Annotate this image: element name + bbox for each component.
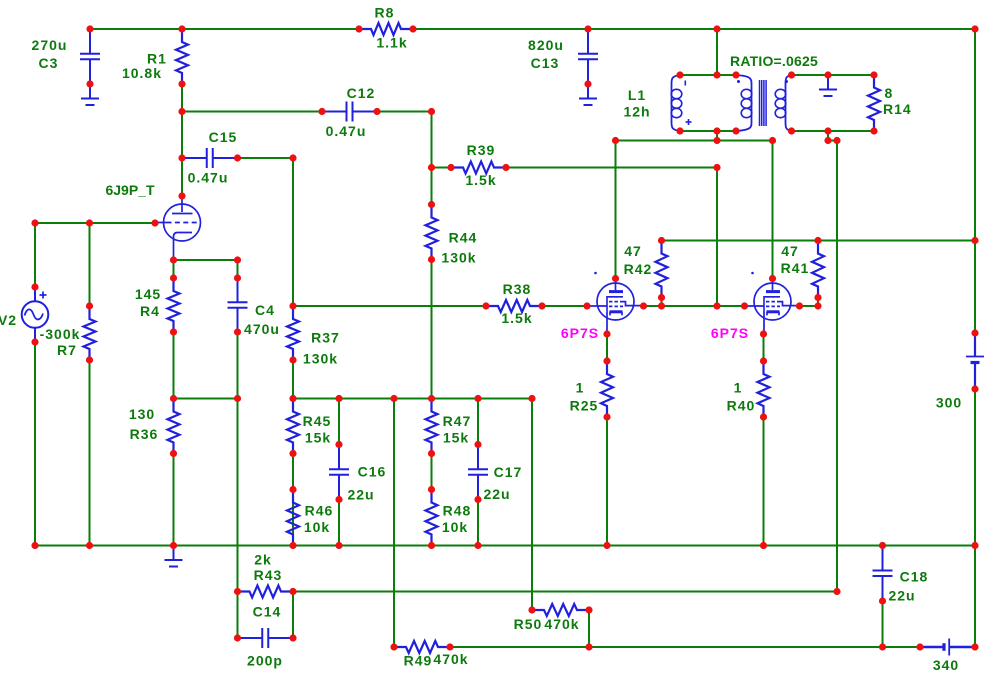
resistor R36 — [168, 399, 180, 454]
junction — [289, 486, 296, 493]
junction — [86, 80, 93, 87]
svg-text:R44: R44 — [449, 230, 478, 246]
wire — [542, 305, 587, 307]
wire — [531, 399, 533, 611]
pentode V4 6P7S — [745, 272, 801, 334]
junction — [916, 643, 923, 650]
wire — [882, 601, 884, 647]
ground — [81, 84, 99, 105]
value label 8 — [885, 85, 894, 101]
capacitor C14 — [238, 628, 294, 648]
junction — [234, 274, 241, 281]
junction — [676, 127, 683, 134]
wire — [292, 360, 294, 399]
wire — [616, 140, 773, 142]
wire — [477, 500, 479, 546]
svg-text:12h: 12h — [623, 104, 650, 120]
resistor R1 — [176, 29, 188, 84]
resistor R4 label — [140, 303, 160, 319]
junction — [713, 137, 720, 144]
svg-text:340: 340 — [933, 657, 959, 673]
wire — [763, 334, 765, 361]
resistor R38 — [486, 300, 542, 312]
svg-text:L1: L1 — [628, 87, 646, 103]
resistor R43 label — [254, 567, 283, 583]
resistor R39 label — [467, 142, 496, 158]
resistor R37 — [287, 306, 299, 360]
svg-text:R40: R40 — [727, 398, 756, 414]
resistor R42 label — [624, 261, 653, 277]
junction — [428, 486, 435, 493]
wire — [35, 222, 155, 224]
junction — [741, 302, 748, 309]
svg-text:R7: R7 — [57, 342, 77, 358]
svg-text:1.1k: 1.1k — [376, 35, 407, 51]
junction — [234, 328, 241, 335]
polarity plus mark — [686, 119, 692, 125]
junction — [170, 395, 177, 402]
svg-text:V2: V2 — [0, 312, 17, 328]
junction — [833, 588, 840, 595]
transformer primary winding — [736, 75, 752, 131]
wire — [716, 131, 718, 141]
junction — [234, 154, 241, 161]
svg-text:200p: 200p — [247, 653, 283, 669]
wire — [293, 398, 532, 400]
junction — [474, 395, 481, 402]
junction — [234, 256, 241, 263]
junction — [760, 357, 767, 364]
junction — [335, 542, 342, 549]
tube 6P7S label — [711, 325, 749, 341]
junction — [234, 588, 241, 595]
value label 1 — [576, 380, 585, 396]
capacitor C14 label — [253, 604, 282, 620]
polarity minus mark — [684, 81, 686, 86]
svg-text:6J9P_T: 6J9P_T — [105, 182, 154, 198]
value label 130k — [303, 351, 338, 367]
junction — [428, 256, 435, 263]
svg-text:15k: 15k — [443, 430, 469, 446]
resistor R7 label — [57, 342, 77, 358]
junction — [170, 328, 177, 335]
junction — [528, 395, 535, 402]
value label 47 — [624, 243, 642, 259]
junction — [658, 237, 665, 244]
wire — [974, 29, 976, 241]
junction — [409, 25, 416, 32]
svg-text:R39: R39 — [467, 142, 496, 158]
wire — [588, 610, 590, 647]
svg-text:R4: R4 — [140, 303, 160, 319]
capacitor C15 — [182, 148, 238, 168]
resistor R49 — [394, 641, 450, 653]
junction — [658, 302, 665, 309]
battery V 340 — [920, 639, 975, 656]
value label 0.47u — [188, 170, 229, 186]
value label 15k — [443, 430, 469, 446]
wire — [680, 74, 736, 76]
wire — [716, 29, 718, 75]
value label 470u — [244, 321, 280, 337]
svg-text:C18: C18 — [900, 569, 929, 585]
value label 12h — [623, 104, 650, 120]
junction — [428, 164, 435, 171]
wire — [828, 140, 837, 142]
junction — [814, 302, 821, 309]
junction — [879, 542, 886, 549]
junction — [824, 137, 831, 144]
wire — [827, 131, 829, 141]
junction — [86, 302, 93, 309]
value label 340 — [933, 657, 959, 673]
wire — [974, 241, 976, 334]
junction — [170, 450, 177, 457]
svg-text:6P7S: 6P7S — [711, 325, 749, 341]
svg-text:8: 8 — [885, 85, 894, 101]
junction — [603, 413, 610, 420]
wire — [89, 360, 91, 546]
svg-text:C14: C14 — [253, 604, 282, 620]
resistor R39 — [451, 162, 506, 174]
value label 130 — [129, 406, 155, 422]
junction — [428, 201, 435, 208]
junction — [428, 395, 435, 402]
svg-text:R36: R36 — [130, 426, 159, 442]
svg-text:1: 1 — [734, 380, 743, 396]
svg-text:R8: R8 — [375, 5, 395, 21]
wire — [772, 141, 774, 279]
junction — [31, 219, 38, 226]
junction — [760, 542, 767, 549]
svg-text:270u: 270u — [32, 37, 68, 53]
value label 22u — [888, 588, 915, 604]
capacitor C15 label — [209, 129, 238, 145]
junction — [833, 137, 840, 144]
junction — [86, 25, 93, 32]
wire — [238, 157, 294, 159]
resistor R46 — [287, 490, 299, 546]
svg-text:R43: R43 — [254, 567, 283, 583]
junction — [151, 219, 158, 226]
svg-text:-300k: -300k — [40, 326, 81, 342]
wire — [662, 240, 976, 242]
junction — [612, 137, 619, 144]
wire — [237, 260, 239, 278]
junction — [474, 441, 481, 448]
junction — [446, 643, 453, 650]
svg-text:C12: C12 — [347, 85, 376, 101]
capacitor C13 — [578, 29, 598, 84]
wire — [717, 305, 745, 307]
wire — [292, 500, 294, 546]
junction — [585, 606, 592, 613]
svg-text:C15: C15 — [209, 129, 238, 145]
wire — [431, 168, 433, 205]
junction — [788, 127, 795, 134]
tube 6J9P_T label — [105, 182, 154, 198]
wire — [974, 389, 976, 546]
svg-text:0.47u: 0.47u — [326, 123, 367, 139]
capacitor C13 label — [531, 55, 560, 71]
junction — [658, 294, 665, 301]
junction — [178, 108, 185, 115]
junction — [713, 127, 720, 134]
svg-text:130k: 130k — [303, 351, 338, 367]
capacitor C18 — [873, 546, 893, 602]
svg-text:R48: R48 — [443, 503, 472, 519]
value label 1.1k — [376, 35, 407, 51]
wire — [292, 592, 294, 639]
transformer core — [760, 80, 767, 126]
svg-text:R38: R38 — [503, 281, 532, 297]
wire — [173, 332, 175, 399]
resistor R37 label — [311, 330, 340, 346]
svg-text:145: 145 — [135, 286, 161, 302]
resistor R25 — [601, 361, 613, 417]
capacitor C12 label — [347, 85, 376, 101]
svg-text:10k: 10k — [442, 519, 468, 535]
net ground rail wire — [35, 545, 975, 547]
wire — [432, 167, 452, 169]
junction — [178, 154, 185, 161]
junction — [971, 329, 978, 336]
junction — [713, 25, 720, 32]
svg-text:RATIO=.0625: RATIO=.0625 — [730, 53, 818, 69]
resistor R48 — [426, 490, 438, 546]
svg-text:10.8k: 10.8k — [122, 65, 162, 81]
net bottom feedback rail wire — [450, 646, 920, 648]
resistor R47 label — [443, 413, 472, 429]
junction — [373, 108, 380, 115]
capacitor C4 — [228, 278, 248, 332]
wire — [237, 332, 239, 399]
wire — [431, 454, 433, 490]
wire — [293, 591, 837, 593]
svg-text:R45: R45 — [303, 413, 332, 429]
wire — [431, 260, 433, 399]
junction — [289, 395, 296, 402]
value label 470k — [544, 616, 579, 632]
wire — [763, 417, 765, 546]
junction — [178, 80, 185, 87]
junction — [971, 25, 978, 32]
junction — [289, 154, 296, 161]
junction — [31, 338, 38, 345]
value label 1.5k — [465, 172, 496, 188]
svg-text:470k: 470k — [433, 651, 468, 667]
resistor R44 — [426, 205, 438, 260]
svg-text:C4: C4 — [255, 302, 275, 318]
svg-text:22u: 22u — [483, 486, 510, 502]
junction — [814, 294, 821, 301]
capacitor C17 label — [494, 464, 523, 480]
wire — [615, 141, 617, 279]
junction — [390, 643, 397, 650]
resistor R47 — [426, 399, 438, 454]
svg-text:1.5k: 1.5k — [501, 310, 532, 326]
net B+ top rail wire — [90, 28, 359, 30]
wire — [89, 223, 91, 306]
svg-text:470u: 470u — [244, 321, 280, 337]
svg-text:R49: R49 — [404, 653, 433, 669]
junction — [538, 302, 545, 309]
resistor R4 — [168, 278, 180, 332]
junction — [760, 413, 767, 420]
wire — [237, 399, 239, 592]
junction — [824, 71, 831, 78]
resistor R14 — [868, 75, 880, 132]
value label 470k — [433, 651, 468, 667]
wire — [800, 305, 819, 307]
resistor R41 — [812, 241, 824, 298]
junction — [428, 542, 435, 549]
value label 1 — [734, 380, 743, 396]
resistor R40 — [758, 361, 770, 417]
svg-text:130: 130 — [129, 406, 155, 422]
junction — [713, 302, 720, 309]
wire — [338, 399, 340, 445]
junction — [170, 274, 177, 281]
svg-text:6P7S: 6P7S — [561, 325, 599, 341]
source V2 — [22, 287, 49, 342]
junction — [879, 643, 886, 650]
wire — [173, 454, 175, 546]
junction — [879, 597, 886, 604]
svg-text:R41: R41 — [781, 260, 810, 276]
inductor L1 winding — [671, 75, 682, 131]
wire — [292, 454, 294, 490]
wire — [477, 399, 479, 445]
wire — [34, 223, 36, 287]
svg-text:R50: R50 — [514, 616, 543, 632]
capacitor C16 label — [358, 464, 387, 480]
ratio label — [730, 53, 818, 69]
transformer secondary winding — [775, 75, 791, 131]
junction — [585, 643, 592, 650]
junction — [732, 127, 739, 134]
junction — [640, 302, 647, 309]
value label 10k — [442, 519, 468, 535]
value label 0.47u — [326, 123, 367, 139]
wire — [34, 342, 36, 546]
junction — [178, 192, 185, 199]
value label 22u — [347, 487, 374, 503]
svg-text:300: 300 — [936, 395, 962, 411]
value label 2k — [254, 552, 272, 568]
junction — [289, 634, 296, 641]
junction — [788, 71, 795, 78]
wire — [181, 84, 183, 196]
resistor R50 — [532, 604, 589, 616]
junction — [971, 643, 978, 650]
svg-text:130k: 130k — [441, 250, 476, 266]
value label 820u — [528, 37, 564, 53]
junction — [612, 275, 619, 282]
ground — [579, 84, 597, 105]
resistor R38 label — [503, 281, 532, 297]
source V2 label — [0, 312, 17, 328]
junction — [289, 588, 296, 595]
value label 300 — [936, 395, 962, 411]
capacitor C3 label — [39, 55, 59, 71]
resistor R43 — [238, 586, 294, 598]
wire — [817, 298, 819, 307]
junction — [528, 606, 535, 613]
inductor L1 label — [628, 87, 646, 103]
wire — [661, 298, 663, 307]
wire — [606, 417, 608, 546]
wire — [792, 130, 875, 132]
value label 10k — [304, 519, 330, 535]
resistor R36 label — [130, 426, 159, 442]
junction — [769, 137, 776, 144]
junction — [971, 237, 978, 244]
junction — [318, 108, 325, 115]
junction — [335, 496, 342, 503]
resistor R44 label — [449, 230, 478, 246]
junction — [31, 283, 38, 290]
battery V 300 — [966, 333, 984, 389]
junction — [824, 127, 831, 134]
junction — [447, 164, 454, 171]
junction — [769, 275, 776, 282]
value label -300k — [40, 326, 81, 342]
ground — [165, 546, 183, 567]
junction — [335, 395, 342, 402]
resistor R46 label — [305, 503, 334, 519]
triode U1 6J9P_T — [155, 196, 201, 260]
junction — [713, 164, 720, 171]
wire — [680, 130, 736, 132]
resistor R14 label — [883, 101, 912, 117]
junction — [732, 71, 739, 78]
wire — [174, 259, 238, 261]
junction — [584, 80, 591, 87]
junction — [289, 356, 296, 363]
junction — [178, 25, 185, 32]
resistor R40 label — [727, 398, 756, 414]
junction — [474, 496, 481, 503]
svg-text:R37: R37 — [311, 330, 340, 346]
wire — [716, 168, 718, 307]
value label 22u — [483, 486, 510, 502]
resistor R49 label — [404, 653, 433, 669]
svg-text:C17: C17 — [494, 464, 523, 480]
svg-text:47: 47 — [624, 243, 642, 259]
junction — [86, 356, 93, 363]
capacitor C12 — [322, 102, 377, 122]
junction — [713, 71, 720, 78]
wire — [338, 500, 340, 546]
junction — [31, 542, 38, 549]
wire — [377, 111, 432, 113]
pentode V3 6P7S — [588, 272, 644, 334]
tube 6P7S label — [561, 325, 599, 341]
svg-text:1.5k: 1.5k — [465, 172, 496, 188]
value label 15k — [305, 430, 331, 446]
svg-text:C3: C3 — [39, 55, 59, 71]
svg-text:C16: C16 — [358, 464, 387, 480]
junction — [971, 385, 978, 392]
value label 270u — [32, 37, 68, 53]
resistor R7 — [84, 306, 96, 360]
resistor R42 — [656, 241, 668, 298]
ground — [819, 75, 837, 96]
value label 47 — [781, 243, 799, 259]
value label 200p — [247, 653, 283, 669]
junction — [355, 25, 362, 32]
